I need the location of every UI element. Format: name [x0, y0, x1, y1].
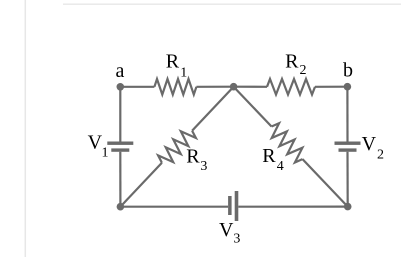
svg-text:1: 1	[102, 146, 109, 161]
svg-text:V: V	[219, 219, 234, 241]
svg-text:R: R	[166, 51, 180, 73]
svg-text:R: R	[285, 51, 299, 73]
svg-text:3: 3	[200, 159, 207, 174]
wire	[120, 86, 154, 88]
junction (bottom-left node)	[117, 203, 125, 211]
junction (middle top node)	[230, 83, 238, 91]
resistor R3	[158, 131, 196, 163]
svg-text:V: V	[88, 132, 103, 154]
wire	[238, 206, 347, 208]
svg-text:2: 2	[300, 63, 307, 78]
node b	[344, 83, 352, 91]
svg-text:a: a	[116, 60, 125, 82]
wire	[196, 86, 233, 88]
label R2	[285, 51, 306, 79]
svg-text:4: 4	[277, 159, 284, 174]
resistor R4	[272, 123, 303, 162]
resistor R1	[154, 79, 196, 95]
label V1	[88, 132, 109, 161]
node a	[117, 83, 125, 91]
svg-text:1: 1	[180, 65, 187, 80]
wire	[234, 86, 267, 88]
wire	[303, 159, 348, 207]
label R3	[186, 146, 207, 174]
svg-text:V: V	[362, 133, 377, 155]
battery V3	[228, 191, 238, 221]
label V2	[362, 133, 384, 163]
node label a	[116, 60, 125, 82]
svg-text:b: b	[343, 59, 353, 81]
wire	[120, 206, 228, 208]
wire	[315, 86, 347, 88]
svg-text:R: R	[262, 145, 276, 167]
label R4	[262, 145, 284, 174]
label R1	[166, 51, 188, 81]
wire	[119, 87, 121, 142]
svg-text:R: R	[186, 146, 200, 168]
battery V1	[107, 142, 133, 152]
wire	[120, 163, 161, 207]
svg-text:3: 3	[233, 232, 240, 247]
wire	[234, 87, 272, 127]
wire	[346, 152, 348, 207]
battery V2	[335, 142, 361, 152]
wire	[346, 87, 348, 142]
junction (bottom-right node)	[344, 203, 352, 211]
wire	[192, 87, 234, 131]
label V3	[219, 219, 240, 247]
resistor R2	[267, 79, 315, 95]
wire	[119, 152, 121, 207]
node label b	[343, 59, 353, 81]
svg-text:2: 2	[377, 148, 384, 163]
